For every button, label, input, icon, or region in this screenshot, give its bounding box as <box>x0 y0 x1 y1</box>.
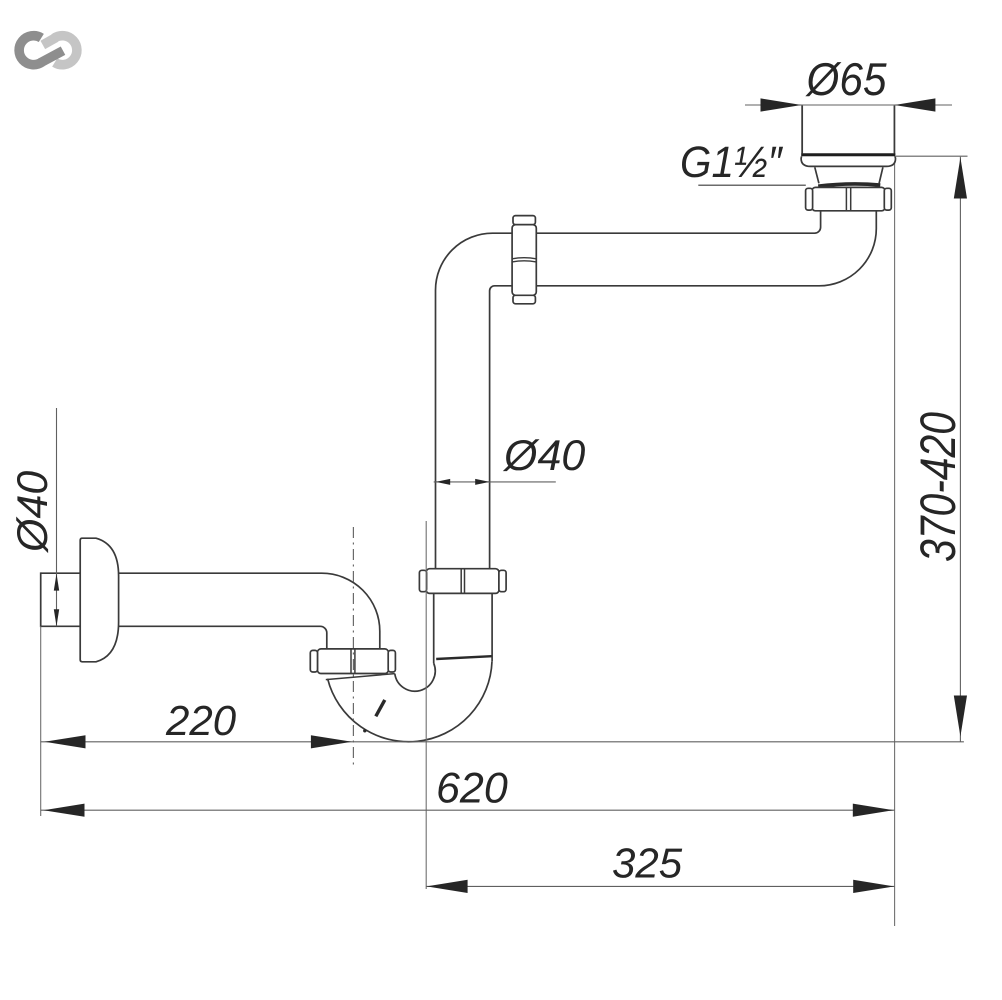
upper trap nut right cap <box>499 570 506 591</box>
dimension Ø40 middle arrows <box>436 479 451 485</box>
tailpiece tube <box>434 593 492 663</box>
dimension Ø65 line <box>745 104 952 106</box>
bottom reference line y=742 <box>41 741 964 743</box>
tailpiece end edge <box>436 656 491 659</box>
union nut top cap <box>513 216 535 225</box>
union nut middle slot <box>512 258 536 262</box>
dimension 620 arrows <box>44 804 85 817</box>
dimension Ø40 left line <box>56 408 58 626</box>
logo dark ring <box>19 36 63 65</box>
leader line for G1 1/2 <box>698 184 806 186</box>
small dot on bowl arc <box>363 729 366 732</box>
left elbow inner edge <box>490 286 512 569</box>
trap bowl inner arc <box>395 663 435 691</box>
wall pipe end cap <box>40 572 42 627</box>
svg-text:Ø40: Ø40 <box>502 432 585 480</box>
drain flange nut slots <box>846 188 850 211</box>
extension line top for 370-420 <box>896 155 968 157</box>
extension line left of flange <box>801 105 803 154</box>
union nut bottom cap <box>513 295 535 304</box>
drain flange nut right cap <box>884 188 891 210</box>
pipe from flange to right elbow (inner edge) <box>536 211 820 233</box>
centerline of trap (dash-dot) <box>352 527 354 766</box>
svg-text:620: 620 <box>436 765 508 813</box>
dimension Ø40 left arrows <box>54 574 59 591</box>
mold tick mark on bowl <box>376 700 385 716</box>
drain flange nut left cap <box>806 188 813 210</box>
trap bowl rim line <box>326 674 395 680</box>
left trap nut right cap <box>388 650 395 672</box>
union nut on horizontal pipe body <box>512 225 536 296</box>
left trap nut slots <box>351 649 355 673</box>
left trap nut body <box>317 649 388 674</box>
logo light ring <box>43 36 77 65</box>
extension line from wall pipe end <box>40 626 42 816</box>
drain flange washer <box>818 184 880 186</box>
svg-text:Ø40: Ø40 <box>9 471 57 554</box>
extension line from tailpiece x=426 <box>425 521 427 889</box>
upper trap nut body <box>426 569 499 594</box>
upper trap nut left cap <box>419 570 426 591</box>
pipe from flange to right elbow (outer edge) <box>536 211 876 286</box>
drain flange seat (thick) <box>801 153 895 156</box>
svg-text:Ø65: Ø65 <box>805 53 887 105</box>
drain flange lip <box>801 156 895 166</box>
wall flange <box>80 538 118 662</box>
wall pipe elbow inner edge <box>41 626 327 649</box>
dimension Ø40 middle line <box>434 481 556 483</box>
dimension 370-420 line <box>959 157 961 742</box>
dimension 325 arrows <box>427 880 468 893</box>
trap bowl outer arc <box>328 661 492 741</box>
drain flange cylinder <box>802 106 894 154</box>
svg-text:G1½″: G1½″ <box>680 138 783 187</box>
dimension 620 line <box>41 809 895 811</box>
upper trap nut slots <box>461 569 464 593</box>
left trap nut left cap <box>310 650 317 672</box>
dimension Ø65 arrows <box>761 98 802 111</box>
svg-text:220: 220 <box>165 697 237 744</box>
drain flange cone <box>815 167 883 183</box>
dimension 370-420 arrows <box>954 158 967 199</box>
dimension 220 arrows <box>45 735 86 748</box>
dimension 325 line <box>426 885 894 887</box>
left elbow outer edge <box>436 233 513 569</box>
svg-text:370-420: 370-420 <box>910 412 966 562</box>
extension line right x=894.6 full height <box>894 105 896 926</box>
wall pipe elbow outer edge <box>41 573 380 649</box>
drain flange nut body <box>812 187 885 210</box>
svg-text:325: 325 <box>612 840 683 887</box>
